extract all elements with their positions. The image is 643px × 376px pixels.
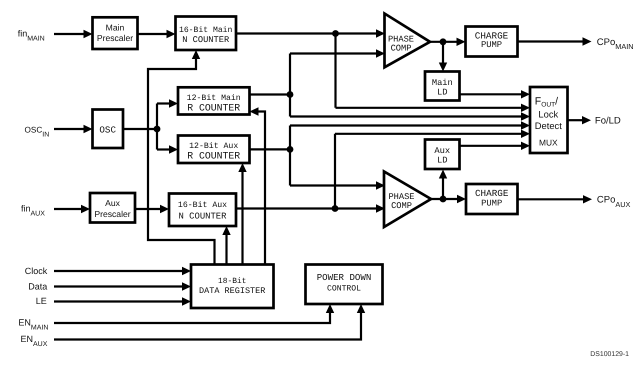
svg-text:Clock: Clock [25, 266, 48, 276]
svg-text:LD: LD [437, 156, 448, 166]
svg-text:R COUNTER: R COUNTER [187, 102, 240, 113]
svg-text:Detect: Detect [535, 120, 562, 131]
svg-text:Aux: Aux [434, 146, 450, 156]
svg-text:LD: LD [437, 87, 448, 97]
svg-text:PUMP: PUMP [481, 40, 502, 50]
svg-text:16-Bit Main: 16-Bit Main [179, 26, 233, 35]
svg-text:MUX: MUX [539, 138, 558, 148]
svg-text:LE: LE [36, 296, 47, 306]
svg-text:N COUNTER: N COUNTER [179, 212, 228, 222]
svg-text:COMP: COMP [391, 201, 412, 211]
svg-text:Prescaler: Prescaler [94, 209, 130, 219]
svg-text:CONTROL: CONTROL [327, 285, 361, 294]
svg-text:DATA REGISTER: DATA REGISTER [199, 286, 265, 296]
svg-text:Lock: Lock [538, 109, 558, 120]
svg-text:OSC: OSC [99, 124, 116, 135]
svg-text:18-Bit: 18-Bit [218, 277, 246, 286]
svg-text:N COUNTER: N COUNTER [182, 35, 229, 45]
svg-text:Data: Data [28, 282, 47, 292]
svg-text:DS100129-1: DS100129-1 [590, 351, 629, 358]
svg-text:Aux: Aux [105, 198, 121, 208]
svg-text:16-Bit Aux: 16-Bit Aux [178, 201, 227, 210]
svg-text:COMP: COMP [391, 44, 412, 54]
svg-text:Main: Main [106, 23, 125, 33]
svg-text:R COUNTER: R COUNTER [187, 151, 240, 162]
svg-text:POWER DOWN: POWER DOWN [317, 272, 372, 283]
svg-text:PUMP: PUMP [481, 199, 502, 209]
svg-text:Fo/LD: Fo/LD [595, 115, 621, 126]
svg-text:Prescaler: Prescaler [97, 33, 133, 43]
